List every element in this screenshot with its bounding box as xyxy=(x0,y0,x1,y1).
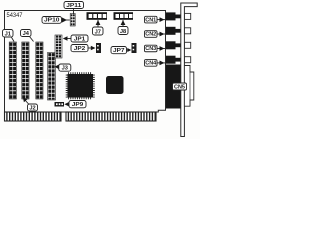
CN3 jack barrel xyxy=(185,42,191,48)
label JP1 with arrow xyxy=(63,35,88,42)
svg-text:J2: J2 xyxy=(29,105,35,111)
label JP2 with arrow xyxy=(71,45,96,53)
label CN4 with arrow xyxy=(145,60,167,67)
svg-text:J3: J3 xyxy=(62,66,68,72)
connector J8 xyxy=(114,12,134,20)
label JP10 with arrow xyxy=(42,17,70,24)
label J8 with arrow xyxy=(118,20,128,35)
socket strip J3 xyxy=(48,53,56,101)
connector CN5 body (D-sub on board) xyxy=(166,65,181,109)
jumper block JP9 target xyxy=(55,102,65,107)
svg-text:JP1: JP1 xyxy=(74,36,86,42)
card edge connector segment 1 xyxy=(5,112,62,121)
CN4 jack barrel xyxy=(185,57,191,63)
mounting bracket xyxy=(181,3,197,137)
pin header JP1 target xyxy=(55,35,62,58)
IC U1 (QFP) xyxy=(66,72,95,99)
svg-text:JP7: JP7 xyxy=(113,48,125,54)
svg-text:JP11: JP11 xyxy=(66,3,81,9)
label J7 with arrow xyxy=(93,20,104,35)
label JP9 with arrow xyxy=(64,101,86,109)
connector J7 xyxy=(87,12,108,20)
label JP7 with arrow xyxy=(111,47,131,55)
svg-text:CN3: CN3 xyxy=(145,46,156,52)
connector CN3 body xyxy=(166,41,181,49)
label J3 with arrow xyxy=(55,64,71,72)
svg-text:J4: J4 xyxy=(23,31,30,37)
socket strip 3 xyxy=(36,42,43,99)
label CN2 with arrow xyxy=(145,31,167,38)
svg-text:JP10: JP10 xyxy=(44,18,60,24)
svg-text:CN4: CN4 xyxy=(145,61,156,67)
CN1 jack barrel xyxy=(185,13,191,19)
label CN3 with arrow xyxy=(145,45,167,52)
connector CN1 body xyxy=(166,12,181,20)
part number 54347 xyxy=(7,12,23,19)
svg-text:CN5: CN5 xyxy=(174,84,185,90)
socket strip J1 xyxy=(9,42,16,99)
label J1 with leader xyxy=(3,30,15,42)
label J4 with leader xyxy=(21,30,34,42)
svg-text:J8: J8 xyxy=(120,29,126,35)
jumper block JP11/JP10 target xyxy=(70,14,75,27)
label JP11 with leader xyxy=(64,2,84,15)
IC U2 (PLCC) xyxy=(106,76,124,94)
label J2 with leader xyxy=(23,97,38,111)
label CN1 with arrow xyxy=(145,16,167,23)
svg-text:54347: 54347 xyxy=(7,12,23,19)
card edge connector segment 2 xyxy=(66,112,156,121)
label CN5 xyxy=(173,83,187,90)
board outline xyxy=(5,11,166,113)
CN5 D-sub shell xyxy=(184,66,193,107)
svg-text:CN1: CN1 xyxy=(145,17,156,23)
connector CN4 body xyxy=(166,56,181,64)
svg-text:JP2: JP2 xyxy=(74,46,86,52)
connector CN2 body xyxy=(166,27,181,35)
jumper block JP7 target xyxy=(132,43,137,53)
jumper block JP2 target xyxy=(96,43,101,53)
svg-text:JP9: JP9 xyxy=(72,102,84,108)
CN2 jack barrel xyxy=(185,28,191,34)
svg-text:J7: J7 xyxy=(95,29,101,35)
svg-text:J1: J1 xyxy=(5,31,11,37)
svg-text:CN2: CN2 xyxy=(145,32,156,38)
socket strip J4 xyxy=(22,42,29,99)
